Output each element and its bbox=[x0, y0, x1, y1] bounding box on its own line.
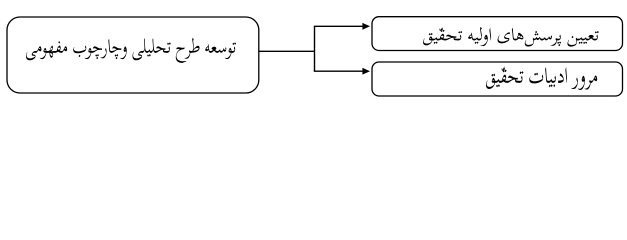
label: توسعه طرح تحلیلی وچارچوب مفهومی bbox=[26, 38, 236, 63]
label: تعیین پرسش‌های اولیه تحقیق bbox=[423, 27, 599, 47]
wire: top branch to first box bbox=[314, 25, 364, 27]
process box: development of analytical plan and conceptual framework bbox=[7, 17, 259, 93]
process box: review of research literature bbox=[372, 62, 623, 96]
arrowhead: top arrow bbox=[362, 23, 370, 30]
wire: main horizontal connector from left box bbox=[259, 50, 315, 52]
arrowhead: bottom arrow bbox=[362, 68, 370, 75]
wire: bottom branch to second box bbox=[314, 70, 364, 72]
process box: determining initial research questions bbox=[372, 17, 623, 51]
label: مرور ادبیات تحقیق bbox=[486, 67, 597, 90]
wire: vertical branch line bbox=[314, 26, 316, 71]
